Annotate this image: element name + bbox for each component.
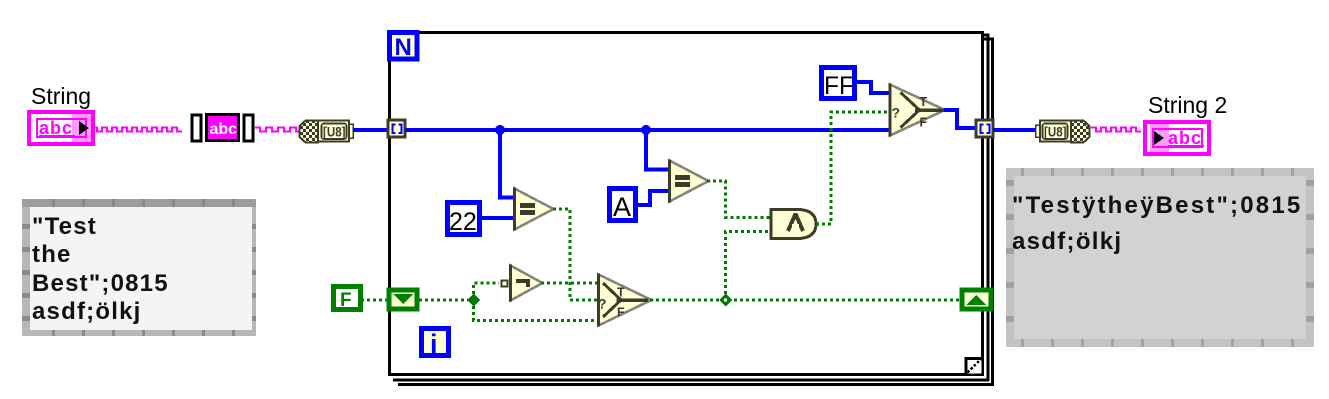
wire: blue to loop left tunnel [353,128,389,132]
svg-text:"TestÿtheÿBest";0815: "TestÿtheÿBest";0815 [1012,192,1302,219]
equal? node U_eq1 [513,188,554,231]
svg-text:i: i [430,329,438,359]
label String 2 [1148,92,1227,118]
equal? node U_eq2 [668,160,709,203]
N count terminal [390,33,418,62]
byte array to string node [1036,121,1090,143]
junction diamond right [719,294,732,307]
svg-text:String 2: String 2 [1148,92,1227,118]
wire: main blue horizontal inside loop [405,128,891,132]
svg-text:the: the [32,241,72,268]
wire: junction1 down to equal1 [500,130,514,198]
not node [502,265,543,302]
svg-text:String: String [31,83,91,109]
svg-text:F: F [340,290,352,311]
junction node 2 [641,125,651,135]
free label left (string content) [22,199,256,336]
wire: junction2 down to equal2 [646,130,668,170]
wire: pink zigzag Trim node to String-To-Byte-Array [255,128,300,132]
svg-text:?: ? [892,105,901,121]
wire: diamond down to select2 f input (green dotted) [474,300,598,321]
select node U_sel2 [597,274,652,327]
wire: select2 output junction up to AND bottom input (green dotted) [726,232,771,301]
and gate [771,210,816,239]
svg-text:A: A [613,192,631,222]
svg-text:[U8]: [U8] [1044,124,1067,140]
boolean constant F [334,287,361,312]
iteration terminal i [422,329,449,360]
wire: NOT output to select2 t input (green dotted) [541,282,597,285]
numeric constant 22 [448,203,480,237]
svg-text:T: T [617,286,625,300]
svg-text:?: ? [598,296,607,312]
shift register left [389,290,417,309]
for-loop frame page 2 [393,35,988,380]
svg-text:F: F [617,306,625,320]
string constant A [610,189,636,223]
svg-text:Best";0815: Best";0815 [32,270,169,297]
svg-text:[U8]: [U8] [323,124,346,140]
svg-text:FF: FF [824,72,854,100]
for-loop frame page 3 [398,39,993,385]
wire: equal1 output down to select2 s input (green dotted) [553,209,597,300]
select node U_sel1 [889,84,946,137]
boolean constant FF [822,68,855,101]
wire: pink zigzag to String 2 indicator [1091,128,1141,132]
wire: equal2 output to AND top input (green dotted) [707,181,770,218]
string control String [29,112,93,144]
shift register right [962,290,991,309]
wire: 22 to equal1 [482,216,514,220]
wire: pink zigzag String control to Trim node [92,128,182,132]
string indicator String 2 [1145,122,1209,154]
svg-text:F: F [920,116,928,130]
string to byte array node [300,121,354,143]
wire: select2 output to right shift register (green dotted) [650,299,960,302]
junction diamond left [467,294,480,307]
wire: F to left shift register (green dotted) [361,299,387,302]
trim whitespace node [192,115,253,142]
label String [31,83,91,109]
wire: diamond up to NOT input (green dotted) [474,283,500,300]
wire: FF to select1 t input [857,82,889,93]
wire: tunnel to byte-array-to-string [993,128,1039,132]
svg-text:asdf;ölkj: asdf;ölkj [32,298,141,325]
free label right (string 2 content) [1006,168,1314,347]
wire: AND output up to select1 s input (green dotted) [816,112,889,224]
svg-text:N: N [395,34,412,61]
wire: select1 output to right tunnel [944,110,976,128]
right tunnel [] [976,120,993,137]
left tunnel [] [388,120,405,137]
svg-text:asdf;ölkj: asdf;ölkj [1012,228,1122,255]
svg-text:abc: abc [210,121,238,138]
svg-text:22: 22 [449,208,477,236]
junction node 1 [495,125,505,135]
for-loop frame main [390,33,983,375]
wire: A to equal2 [637,191,668,205]
svg-text:T: T [920,95,928,109]
svg-text:"Test: "Test [32,213,97,240]
loop resize fold corner [966,357,982,374]
wire: shift register to diamond junction (green dotted) [419,299,473,302]
